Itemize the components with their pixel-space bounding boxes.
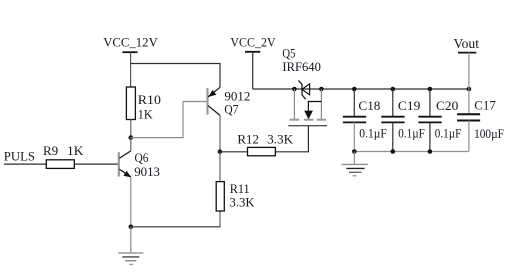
ground symbol under Q6: [118, 227, 143, 265]
svg-text:0.1µF: 0.1µF: [359, 126, 387, 141]
mosfet Q5 source junction dot: [292, 87, 297, 92]
svg-text:R10: R10: [138, 92, 161, 107]
resistor R11: [216, 182, 224, 211]
svg-text:0.1µF: 0.1µF: [435, 126, 462, 141]
capacitor C18: [343, 89, 366, 152]
power Vout bar: [458, 52, 476, 54]
capacitor C20: [418, 89, 441, 152]
wire: Q6 emitter down to node B: [130, 177, 132, 227]
wire: PULS input to R9 left: [4, 163, 46, 165]
svg-text:IRF640: IRF640: [282, 59, 321, 74]
mosfet Q5 gate plate: [288, 125, 327, 127]
node J junction dot (C20 bottom): [428, 149, 433, 154]
node A junction dot (R10/Q6 collector/Q7 base): [129, 135, 134, 140]
wire: node B to R11 bottom: [131, 226, 221, 228]
svg-text:9013: 9013: [134, 164, 160, 179]
ground symbol under capacitor rail: [342, 152, 368, 176]
wire: VCC_12V rail to Q7 emitter: [131, 64, 220, 88]
node C junction dot (Q7 collector/R12/R11): [218, 149, 223, 154]
wire: VCC_12V down to corner and R10 top: [130, 52, 132, 87]
capacitor C19: [381, 89, 404, 152]
node D junction dot (rail/C18 top): [352, 87, 357, 92]
svg-text:VCC_12V: VCC_12V: [103, 34, 158, 49]
mosfet Q5 bulk connector: [308, 102, 321, 111]
svg-text:100µF: 100µF: [474, 126, 504, 141]
capacitor C17: [457, 89, 480, 152]
node F junction dot (rail/C20 top): [428, 87, 433, 92]
resistor R12: [248, 147, 276, 155]
svg-text:3.3K: 3.3K: [230, 194, 256, 209]
transistor Q7 symbol: [208, 87, 221, 115]
svg-text:PULS: PULS: [4, 149, 35, 164]
transistor Q7 emitter arrow (PNP, pointing to base): [208, 90, 216, 97]
power VCC_12V bar: [123, 51, 138, 53]
svg-text:3.3K: 3.3K: [267, 131, 294, 146]
wire: Vout down to rail: [468, 52, 470, 89]
wire: node A to Q7 base: [131, 102, 207, 138]
svg-text:1K: 1K: [138, 106, 153, 121]
svg-text:VCC_2V: VCC_2V: [230, 35, 276, 50]
mosfet Q5 bulk arrow: [304, 111, 313, 120]
svg-text:C19: C19: [398, 98, 421, 113]
wire: Q6 collector up to node A: [130, 138, 132, 151]
node I junction dot (C19 bottom): [391, 149, 396, 154]
wire: VCC_2V down to top rail: [252, 52, 254, 89]
transistor Q6 emitter arrow: [123, 171, 131, 178]
svg-text:C17: C17: [474, 97, 496, 112]
power VCC_2V bar: [245, 51, 260, 53]
svg-text:Q6: Q6: [135, 150, 149, 165]
node G junction dot (rail/Vout/C17): [467, 87, 472, 92]
transistor Q6 symbol: [119, 151, 131, 177]
mosfet Q5 body zener diode: [298, 81, 309, 100]
wire: top rail VCC_2V to Vout: [253, 88, 469, 90]
svg-text:Q7: Q7: [224, 102, 238, 117]
wire: R9 right to Q6 base: [74, 163, 118, 165]
wire: node C down to R11 top: [219, 152, 221, 182]
node E junction dot (rail/C19 top): [391, 87, 396, 92]
wire: R10 bottom to node A: [130, 120, 132, 138]
svg-text:R12: R12: [237, 131, 259, 146]
svg-text:Vout: Vout: [454, 37, 480, 52]
node B junction dot (Q6 emitter/R11 return/ground): [129, 225, 134, 230]
mosfet Q5 legs: [294, 89, 321, 119]
resistor R10: [126, 87, 135, 120]
wire: node C to R12 left: [220, 151, 248, 153]
svg-text:1K: 1K: [67, 143, 84, 158]
mosfet Q5 channel contacts: [290, 119, 327, 121]
svg-text:C20: C20: [436, 98, 458, 113]
svg-text:C18: C18: [358, 98, 380, 113]
svg-text:0.1µF: 0.1µF: [398, 126, 425, 141]
wire: R12 right to Q5 gate: [275, 126, 308, 152]
mosfet Q5 drain junction dot: [319, 87, 324, 92]
node H junction dot (C18 bottom/ground): [352, 149, 357, 154]
wire: capacitor bottom rail: [354, 151, 469, 153]
resistor R9: [46, 160, 74, 169]
wire: Q7 collector down to node C: [219, 115, 221, 151]
svg-text:R9: R9: [43, 143, 58, 158]
